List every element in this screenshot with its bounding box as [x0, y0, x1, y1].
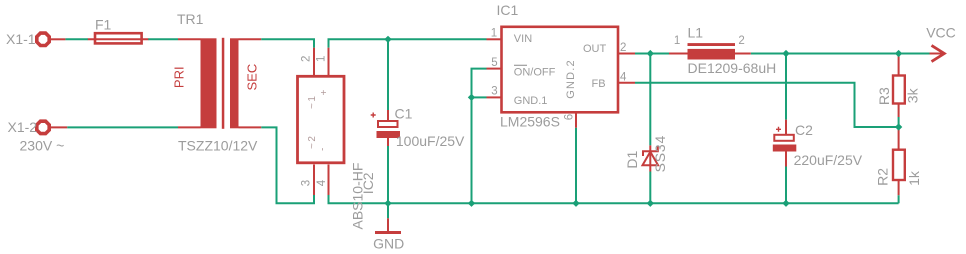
svg-text:~2: ~2	[307, 135, 318, 149]
svg-text:C2: C2	[795, 122, 813, 138]
svg-text:-: -	[318, 146, 329, 151]
svg-text:4: 4	[620, 72, 627, 84]
svg-text:3k: 3k	[904, 87, 920, 103]
svg-text:FB: FB	[592, 78, 606, 90]
svg-text:2: 2	[738, 35, 744, 47]
svg-text:SS34: SS34	[652, 135, 668, 172]
svg-text:220uF/25V: 220uF/25V	[794, 152, 863, 168]
svg-text:3: 3	[491, 85, 497, 97]
svg-text:230V ~: 230V ~	[20, 138, 65, 154]
svg-text:PRI: PRI	[171, 66, 186, 88]
svg-text:D1: D1	[624, 150, 640, 168]
svg-text:1: 1	[491, 27, 497, 39]
svg-text:5: 5	[491, 57, 497, 69]
svg-text:2: 2	[301, 56, 313, 62]
svg-text:1: 1	[316, 56, 328, 62]
svg-text:TSZZ10/12V: TSZZ10/12V	[178, 137, 258, 153]
svg-text:+: +	[319, 88, 330, 95]
svg-text:DE1209-68uH: DE1209-68uH	[688, 60, 777, 76]
svg-text:GND.1: GND.1	[514, 95, 548, 107]
svg-text:1k: 1k	[906, 170, 922, 186]
svg-text:R3: R3	[876, 87, 892, 105]
svg-text:100uF/25V: 100uF/25V	[396, 133, 465, 149]
svg-text:OUT: OUT	[583, 43, 607, 55]
svg-text:LM2596S: LM2596S	[500, 114, 560, 130]
svg-text:X1-2: X1-2	[8, 119, 38, 135]
svg-text:VIN: VIN	[514, 33, 532, 45]
svg-text:R2: R2	[875, 168, 891, 186]
svg-text:ON/OFF: ON/OFF	[514, 67, 556, 79]
svg-text:C1: C1	[395, 105, 413, 121]
svg-text:X1-1: X1-1	[6, 31, 36, 47]
svg-text:F1: F1	[95, 17, 112, 33]
svg-text:GND.2: GND.2	[565, 59, 577, 99]
svg-text:4: 4	[316, 179, 328, 186]
svg-text:VCC: VCC	[926, 25, 956, 41]
svg-text:IC1: IC1	[497, 2, 519, 18]
svg-text:6: 6	[564, 114, 576, 120]
svg-text:3: 3	[301, 180, 313, 186]
svg-text:2: 2	[620, 42, 626, 54]
svg-text:1: 1	[674, 35, 680, 47]
svg-text:~1: ~1	[307, 95, 318, 109]
svg-text:TR1: TR1	[177, 11, 204, 27]
svg-text:SEC: SEC	[245, 64, 260, 91]
svg-text:GND: GND	[373, 236, 404, 252]
svg-text:L1: L1	[688, 25, 704, 41]
svg-text:IC2: IC2	[360, 172, 376, 194]
